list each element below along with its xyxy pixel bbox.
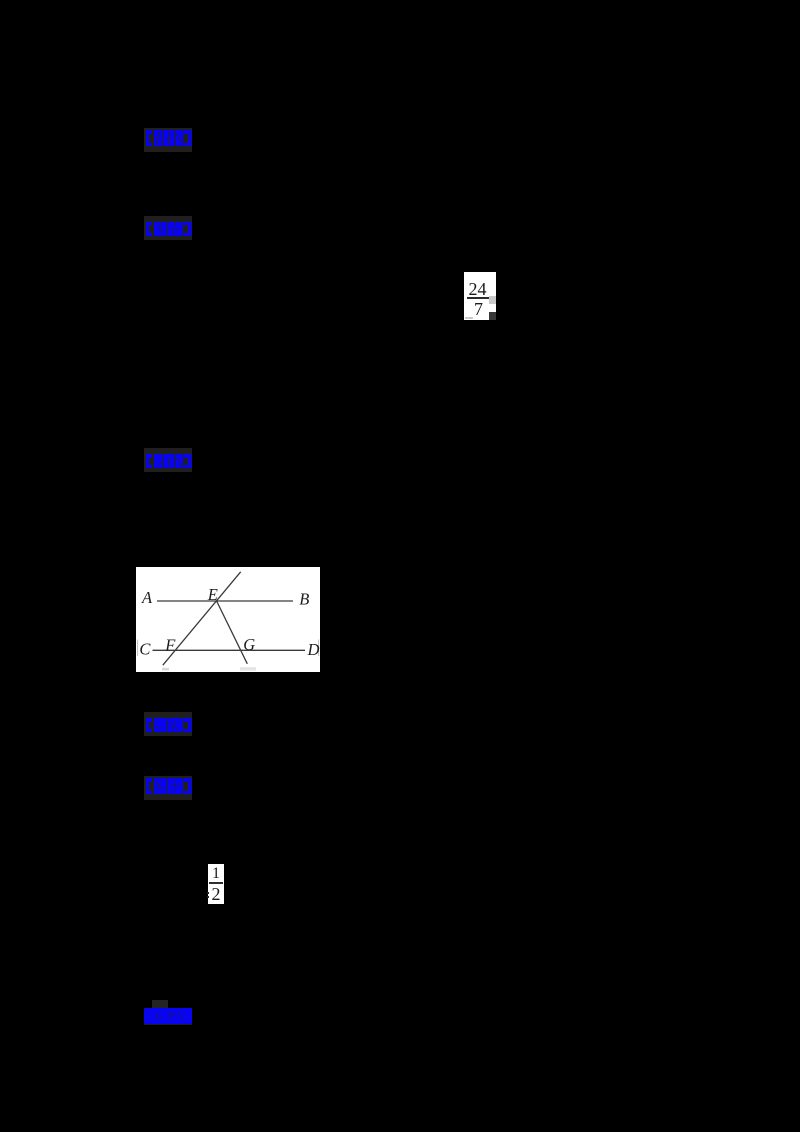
fraction image 24/7 bbox=[464, 272, 496, 320]
svg-text:B: B bbox=[299, 590, 309, 609]
svg-text:E: E bbox=[207, 585, 218, 604]
faint right cell border bbox=[318, 640, 320, 657]
denominator 7 bbox=[464, 302, 493, 317]
faint left cell border bbox=[137, 640, 139, 657]
svg-text:D: D bbox=[307, 640, 320, 659]
colon dot lower bbox=[207, 896, 209, 898]
label 3 blue tag 【...】 bbox=[144, 448, 192, 472]
label 2 blue tag 【..】 bbox=[144, 216, 192, 240]
bottom smudge right bbox=[240, 667, 256, 670]
line AB bbox=[157, 600, 293, 602]
geometry figure: parallel lines AB, CD with transversal EF and segment EG bbox=[136, 567, 320, 672]
denominator 2 bbox=[208, 887, 224, 902]
gray artifact right of bar bbox=[489, 296, 496, 304]
fraction image 1/2 bbox=[208, 864, 224, 904]
numerator 24 bbox=[463, 281, 493, 297]
fraction bar bbox=[467, 297, 490, 299]
label 1 blue tag 【...】 bbox=[144, 128, 192, 152]
svg-text:A: A bbox=[141, 588, 153, 607]
numerator 1 bbox=[208, 867, 225, 881]
line CD bbox=[153, 649, 306, 651]
colon dot upper (adjacent text over image edge) bbox=[207, 892, 209, 894]
gray artifact bottom-left bbox=[465, 317, 473, 320]
dark patch above label 6 bbox=[152, 1000, 168, 1008]
svg-text:C: C bbox=[139, 639, 151, 658]
svg-text:F: F bbox=[164, 636, 176, 655]
transversal through E and F bbox=[163, 572, 241, 665]
svg-text:G: G bbox=[243, 635, 255, 654]
fraction bar bbox=[209, 882, 224, 884]
label 4 blue tag 【..】 bbox=[144, 712, 192, 736]
segment EG bbox=[217, 601, 248, 664]
bottom smudge left bbox=[162, 668, 169, 671]
label 5 blue tag 【...】 bbox=[144, 776, 192, 800]
dark strip below label 6 bbox=[144, 1023, 192, 1025]
label 6 blue tag (dense) bbox=[144, 1008, 192, 1023]
comma over image corner bbox=[489, 312, 496, 320]
